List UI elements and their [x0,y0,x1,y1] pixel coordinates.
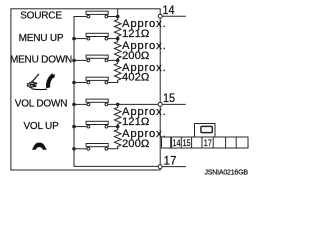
svg-text:200Ω: 200Ω [122,50,149,62]
junction VOL DOWN row left bus [72,103,76,107]
connector lock tab [195,124,216,138]
svg-text:402Ω: 402Ω [122,72,149,84]
svg-text:14: 14 [163,3,175,17]
svg-text:121Ω: 121Ω [122,116,149,128]
junction VOL UP row left bus [72,125,76,129]
terminal 14 [158,14,186,18]
wire row answer-phone [74,81,118,83]
switch VOL UP [86,121,108,128]
steering switch assembly box [11,9,160,170]
wire top stub to pin 14 [117,9,119,17]
resistor R3 402ohm [114,60,121,82]
switch answer-phone [86,77,108,84]
junction answer-phone row left bus [72,81,76,85]
connector row [172,137,248,148]
value label R2 [122,40,167,62]
value label R1 [122,18,167,40]
junction MENU DOWN row right bus [116,59,120,63]
wire row hangup-phone [74,147,118,149]
wire row SOURCE right [108,16,118,18]
junction VOL DOWN row right bus / pin15 tap [116,103,120,107]
junction MENU UP row right bus [116,37,120,41]
junction VOL UP row right bus [116,125,120,129]
switch hangup-phone [86,144,108,151]
value label R3 [122,62,167,84]
icon answer phone with sound waves [27,74,55,90]
svg-text:VOL DOWN: VOL DOWN [15,99,67,110]
svg-text:MENU UP: MENU UP [19,33,64,44]
svg-text:121Ω: 121Ω [122,28,149,40]
junction MENU UP row left bus [72,37,76,41]
connector cell 1 [162,137,171,148]
svg-text:15: 15 [163,91,175,105]
terminal 15 [158,102,186,106]
junction node pin14 tap / SOURCE row right [116,15,120,19]
value label R4 [122,106,167,128]
terminal 17 [158,165,186,169]
wire row VOL UP [74,126,118,128]
connector pin numbers [173,138,212,149]
wire row MENU UP [74,38,118,40]
wire row VOL DOWN to pin 15 [74,103,158,105]
svg-text:17: 17 [204,138,212,149]
svg-text:VOL UP: VOL UP [23,121,59,132]
svg-text:200Ω: 200Ω [122,138,149,150]
resistor R2 200ohm [114,39,121,61]
svg-text:15: 15 [183,138,191,149]
resistor R4 121ohm [114,104,121,126]
svg-text:MENU DOWN: MENU DOWN [10,55,72,66]
svg-text:14: 14 [173,138,181,149]
svg-text:SOURCE: SOURCE [20,11,62,22]
switch MENU UP [86,33,108,40]
junction MENU DOWN row left bus [72,59,76,63]
junction hangup-phone row left bus [72,147,76,151]
resistor R5 200ohm [114,127,121,149]
svg-text:17: 17 [164,154,177,168]
switch SOURCE [86,11,108,18]
switch MENU DOWN [86,55,108,62]
wire row MENU DOWN [74,59,118,61]
icon hangup phone [32,143,47,150]
value label R5 [122,128,167,150]
resistor R1 121ohm [114,17,121,39]
wire left bus [74,17,158,167]
switch VOL DOWN [86,99,108,106]
svg-text:JSNIA0216GB: JSNIA0216GB [205,169,249,176]
